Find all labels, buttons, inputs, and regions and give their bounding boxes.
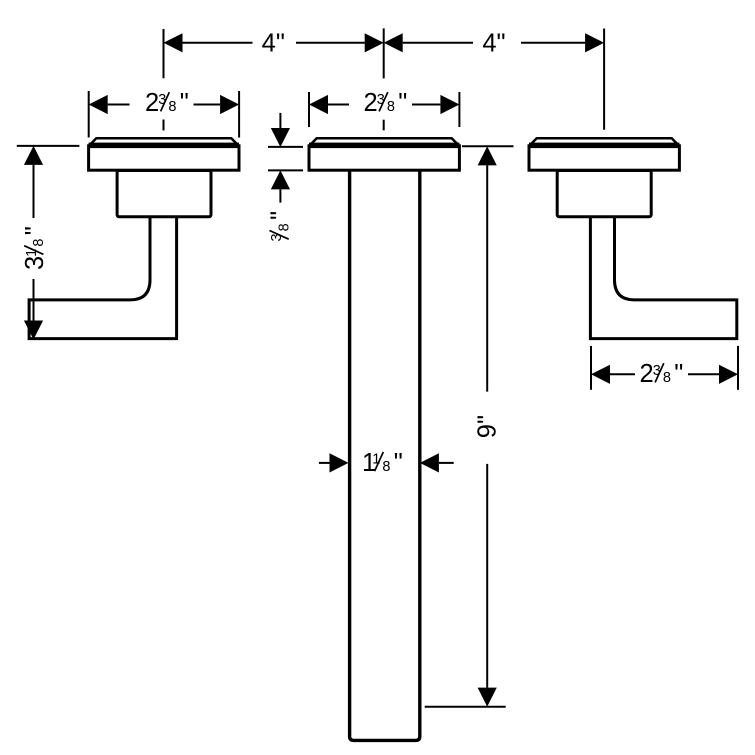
svg-text:": " — [674, 360, 683, 388]
svg-text:8: 8 — [663, 370, 671, 386]
svg-text:3: 3 — [21, 256, 49, 270]
svg-text:": " — [21, 226, 49, 235]
svg-text:8: 8 — [168, 99, 176, 115]
svg-text:": " — [266, 211, 294, 220]
svg-text:": " — [398, 89, 407, 117]
svg-text:8: 8 — [387, 99, 395, 115]
svg-text:2: 2 — [364, 89, 378, 117]
svg-text:4": 4" — [262, 29, 285, 57]
svg-text:2: 2 — [640, 360, 654, 388]
svg-text:8: 8 — [31, 239, 47, 247]
svg-text:": " — [394, 449, 403, 477]
svg-text:": " — [180, 89, 189, 117]
svg-text:9": 9" — [474, 415, 502, 438]
svg-text:4": 4" — [482, 29, 505, 57]
svg-text:8: 8 — [276, 223, 292, 231]
svg-text:2: 2 — [145, 89, 159, 117]
svg-text:8: 8 — [382, 459, 390, 475]
